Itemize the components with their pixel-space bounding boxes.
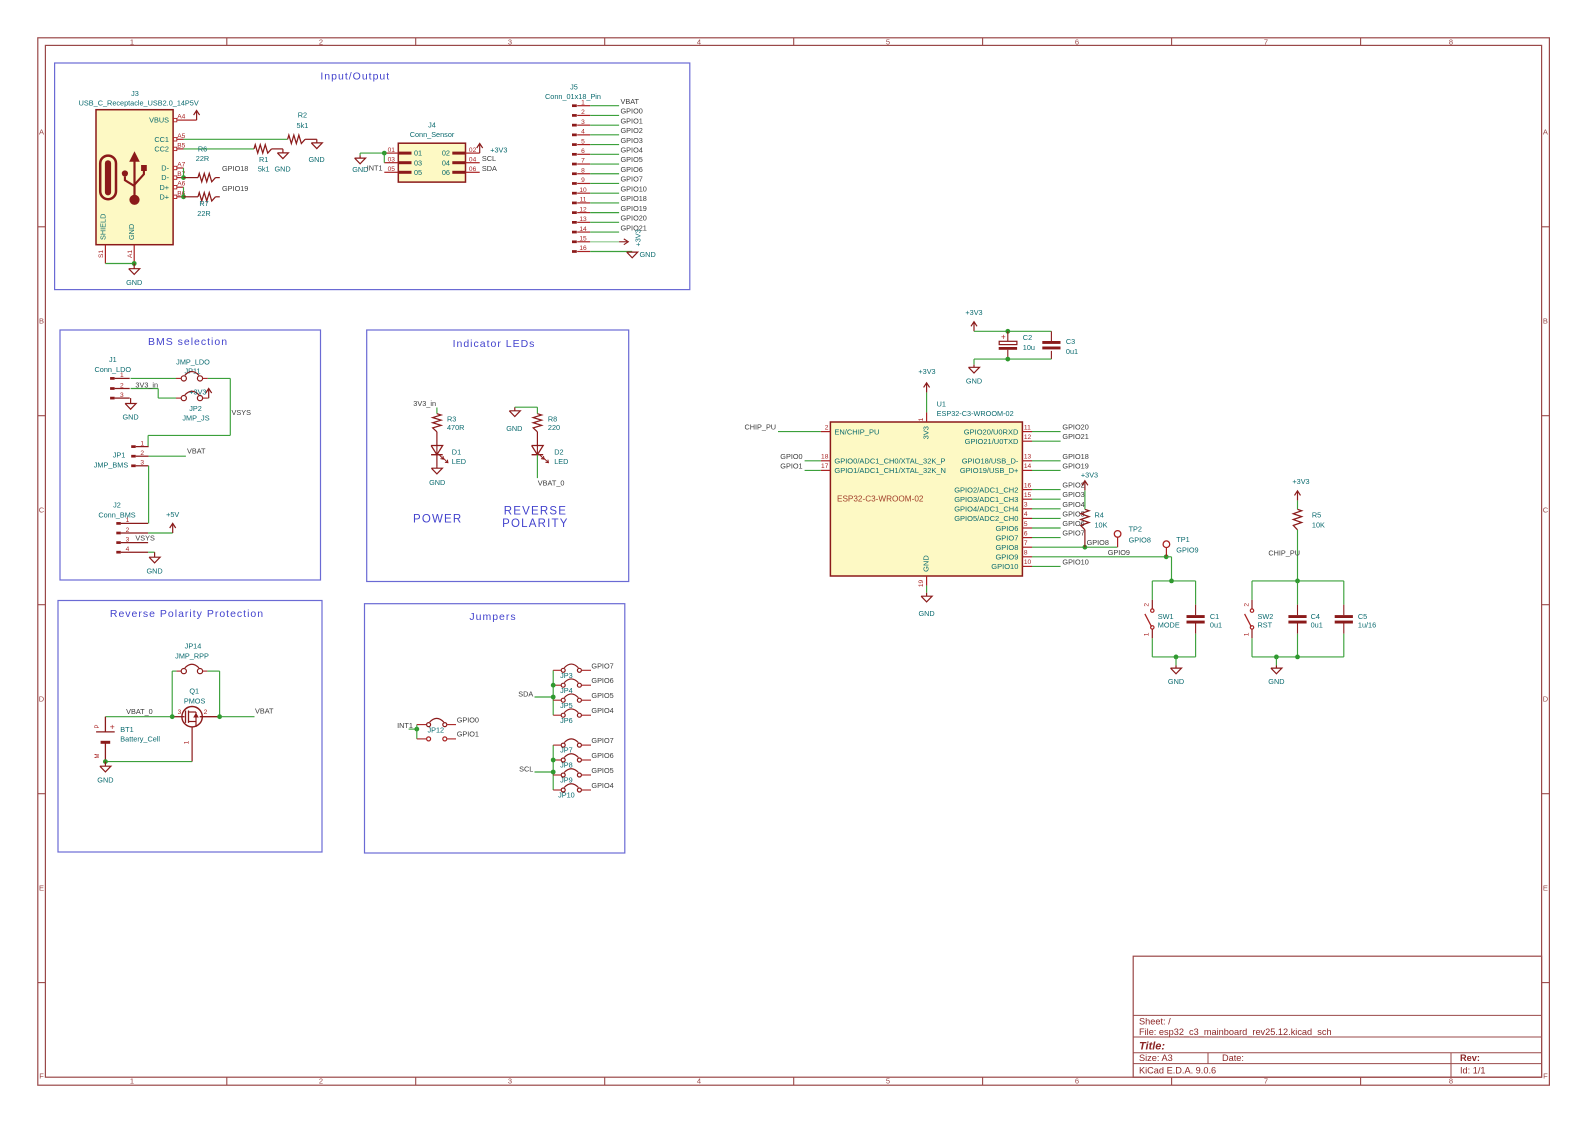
svg-text:2: 2 [825, 424, 829, 431]
svg-text:Id: 1/1: Id: 1/1 [1460, 1066, 1486, 1076]
svg-text:GND: GND [1168, 677, 1184, 686]
svg-text:3: 3 [508, 37, 512, 46]
svg-text:01: 01 [388, 147, 396, 154]
svg-text:GND: GND [122, 413, 138, 422]
svg-text:+3V3: +3V3 [965, 308, 982, 317]
svg-text:GPIO4: GPIO4 [591, 781, 613, 790]
svg-text:GPIO2: GPIO2 [621, 126, 643, 135]
svg-text:10: 10 [1024, 559, 1032, 566]
svg-text:R5: R5 [1312, 511, 1321, 520]
svg-text:E: E [1543, 884, 1548, 893]
svg-text:02: 02 [469, 147, 477, 154]
svg-text:GPIO1: GPIO1 [780, 461, 802, 470]
svg-text:5k1: 5k1 [297, 121, 309, 130]
svg-text:CHIP_PU: CHIP_PU [1268, 548, 1300, 557]
svg-text:JP14: JP14 [185, 642, 202, 651]
svg-text:Rev:: Rev: [1460, 1053, 1480, 1063]
svg-text:F: F [1543, 1072, 1548, 1081]
svg-text:GPIO5/ADC2_CH0: GPIO5/ADC2_CH0 [954, 514, 1018, 523]
svg-text:ESP32-C3-WROOM-02: ESP32-C3-WROOM-02 [837, 494, 924, 503]
svg-text:A1: A1 [127, 250, 134, 258]
svg-text:2: 2 [319, 1077, 323, 1086]
svg-text:GND: GND [506, 424, 522, 433]
svg-text:B: B [39, 317, 44, 326]
svg-text:GPIO0: GPIO0 [457, 715, 479, 724]
svg-text:GPIO2/ADC1_CH2: GPIO2/ADC1_CH2 [954, 485, 1018, 494]
svg-text:LED: LED [554, 457, 568, 466]
svg-text:EN/CHIP_PU: EN/CHIP_PU [834, 427, 879, 436]
svg-text:CC1: CC1 [154, 135, 169, 144]
svg-text:470R: 470R [447, 423, 464, 432]
svg-text:Reverse Polarity Protection: Reverse Polarity Protection [110, 608, 264, 620]
svg-text:GPIO3/ADC1_CH3: GPIO3/ADC1_CH3 [954, 495, 1018, 504]
svg-text:Conn_01x18_Pin: Conn_01x18_Pin [545, 92, 601, 101]
svg-text:2: 2 [140, 450, 144, 457]
svg-text:2: 2 [204, 709, 208, 716]
svg-text:12: 12 [1024, 434, 1032, 441]
svg-text:4: 4 [581, 129, 585, 136]
svg-text:7: 7 [1264, 1077, 1268, 1086]
svg-text:PMOS: PMOS [184, 696, 206, 705]
svg-text:GND: GND [126, 278, 142, 287]
svg-text:VBAT_0: VBAT_0 [538, 478, 565, 487]
svg-text:CC2: CC2 [154, 145, 169, 154]
svg-text:GPIO10: GPIO10 [621, 184, 647, 193]
svg-text:C3: C3 [1066, 337, 1075, 346]
svg-text:BMS selection: BMS selection [148, 336, 228, 348]
svg-text:GND: GND [966, 376, 982, 385]
svg-text:0u1: 0u1 [1311, 620, 1323, 629]
svg-text:18: 18 [821, 454, 829, 461]
svg-text:+3V3: +3V3 [918, 367, 935, 376]
svg-text:5: 5 [1024, 521, 1028, 528]
svg-text:GPIO8: GPIO8 [1129, 535, 1151, 544]
svg-text:22R: 22R [196, 154, 209, 163]
svg-text:GND: GND [640, 250, 656, 259]
svg-text:GPIO7: GPIO7 [591, 661, 613, 670]
svg-text:M: M [95, 754, 101, 759]
svg-text:5: 5 [581, 138, 585, 145]
svg-text:GPIO8: GPIO8 [1087, 538, 1109, 547]
svg-text:D1: D1 [452, 447, 461, 456]
svg-text:+5V: +5V [166, 510, 179, 519]
svg-text:SCL: SCL [519, 765, 533, 774]
svg-text:13: 13 [579, 216, 587, 223]
svg-text:GPIO2: GPIO2 [1062, 481, 1084, 490]
svg-text:GPIO1: GPIO1 [457, 730, 479, 739]
svg-text:10K: 10K [1095, 520, 1108, 529]
svg-text:10u: 10u [1023, 343, 1035, 352]
svg-text:Date:: Date: [1222, 1053, 1244, 1063]
svg-text:06: 06 [442, 168, 450, 177]
svg-text:GPIO19: GPIO19 [621, 204, 647, 213]
svg-text:LED: LED [452, 457, 466, 466]
svg-text:GPIO20/U0RXD: GPIO20/U0RXD [964, 427, 1019, 436]
svg-text:GPIO7: GPIO7 [995, 533, 1018, 542]
svg-text:13: 13 [1024, 454, 1032, 461]
svg-text:D-: D- [161, 173, 169, 182]
svg-text:16: 16 [579, 245, 587, 252]
svg-text:GPIO21: GPIO21 [1062, 432, 1088, 441]
svg-text:A: A [39, 128, 44, 137]
svg-text:JMP_JS: JMP_JS [182, 413, 209, 422]
svg-text:GPIO4: GPIO4 [621, 146, 643, 155]
svg-text:11: 11 [580, 197, 587, 204]
svg-text:GPIO7: GPIO7 [621, 175, 643, 184]
svg-text:GPIO7: GPIO7 [591, 736, 613, 745]
svg-text:REVERSE: REVERSE [504, 506, 567, 518]
svg-text:4: 4 [1024, 511, 1028, 518]
svg-text:02: 02 [442, 149, 450, 158]
svg-text:VBAT_0: VBAT_0 [126, 707, 153, 716]
svg-text:GPIO5: GPIO5 [591, 691, 613, 700]
svg-text:J5: J5 [570, 83, 578, 92]
svg-text:Sheet: /: Sheet: / [1139, 1017, 1171, 1027]
svg-text:2: 2 [1144, 603, 1151, 607]
svg-text:Conn_LDO: Conn_LDO [95, 365, 132, 374]
svg-text:GPIO0: GPIO0 [621, 107, 643, 116]
svg-text:VBAT: VBAT [621, 97, 640, 106]
svg-text:GPIO10: GPIO10 [1062, 557, 1088, 566]
svg-text:GPIO6: GPIO6 [591, 751, 613, 760]
svg-text:GPIO7: GPIO7 [1062, 529, 1084, 538]
svg-text:4: 4 [126, 546, 130, 553]
svg-text:GPIO5: GPIO5 [621, 155, 643, 164]
svg-text:8: 8 [1449, 37, 1453, 46]
svg-text:GPIO18: GPIO18 [621, 194, 647, 203]
svg-text:0u1: 0u1 [1210, 620, 1222, 629]
svg-text:SDA: SDA [518, 690, 533, 699]
svg-text:2: 2 [319, 37, 323, 46]
svg-text:A7: A7 [177, 162, 185, 169]
svg-text:D: D [39, 695, 45, 704]
svg-text:S1: S1 [98, 250, 105, 258]
svg-text:14: 14 [1024, 463, 1032, 470]
svg-text:3V3_in: 3V3_in [135, 380, 158, 389]
svg-text:VSYS: VSYS [232, 408, 252, 417]
svg-text:16: 16 [1024, 482, 1032, 489]
svg-text:GND: GND [1268, 677, 1284, 686]
svg-text:+3V3: +3V3 [1292, 477, 1309, 486]
svg-text:3: 3 [581, 119, 585, 126]
svg-text:USB_C_Receptacle_USB2.0_14P5V: USB_C_Receptacle_USB2.0_14P5V [79, 99, 199, 108]
svg-text:D2: D2 [554, 447, 563, 456]
svg-text:3: 3 [178, 709, 182, 716]
svg-text:10: 10 [579, 187, 587, 194]
svg-text:8: 8 [581, 167, 585, 174]
svg-text:GND: GND [146, 566, 162, 575]
svg-text:GPIO20: GPIO20 [1062, 423, 1088, 432]
svg-text:05: 05 [414, 168, 422, 177]
svg-text:GPIO21/U0TXD: GPIO21/U0TXD [965, 437, 1019, 446]
svg-text:Conn_Sensor: Conn_Sensor [410, 130, 455, 139]
svg-text:P: P [95, 724, 101, 728]
svg-text:J4: J4 [428, 121, 436, 130]
svg-text:GPIO5: GPIO5 [591, 766, 613, 775]
svg-text:GPIO18/USB_D-: GPIO18/USB_D- [962, 457, 1019, 466]
svg-text:GND: GND [429, 478, 445, 487]
svg-text:6: 6 [1075, 37, 1079, 46]
svg-text:JMP_RPP: JMP_RPP [175, 651, 209, 660]
svg-text:11: 11 [1024, 424, 1031, 431]
svg-text:Size: A3: Size: A3 [1139, 1053, 1173, 1063]
svg-text:JP10: JP10 [558, 791, 575, 800]
svg-text:01: 01 [414, 149, 422, 158]
svg-text:2: 2 [126, 527, 130, 534]
svg-text:1: 1 [126, 517, 130, 524]
svg-text:J1: J1 [109, 355, 117, 364]
svg-text:+3V3: +3V3 [490, 145, 507, 154]
svg-text:12: 12 [579, 206, 587, 213]
svg-text:GPIO9: GPIO9 [1108, 548, 1130, 557]
svg-text:+3V3: +3V3 [1081, 470, 1098, 479]
svg-text:U1: U1 [937, 400, 946, 409]
svg-text:GPIO19: GPIO19 [1062, 461, 1088, 470]
svg-text:19: 19 [918, 580, 925, 588]
svg-text:KiCad E.D.A. 9.0.6: KiCad E.D.A. 9.0.6 [1139, 1066, 1216, 1076]
svg-text:1: 1 [120, 372, 124, 379]
svg-text:GND: GND [918, 609, 934, 618]
svg-text:14: 14 [579, 226, 587, 233]
svg-text:+3V3: +3V3 [189, 387, 206, 396]
svg-text:File: esp32_c3_mainboard_rev25: File: esp32_c3_mainboard_rev25.12.kicad_… [1139, 1027, 1332, 1037]
svg-text:4: 4 [697, 37, 701, 46]
svg-text:POWER: POWER [413, 513, 462, 525]
svg-text:1: 1 [130, 1077, 134, 1086]
svg-text:9: 9 [581, 177, 585, 184]
svg-text:SCL: SCL [482, 154, 496, 163]
svg-text:3: 3 [140, 460, 144, 467]
svg-text:GPIO1/ADC1_CH1/XTAL_32K_N: GPIO1/ADC1_CH1/XTAL_32K_N [834, 466, 946, 475]
svg-text:3: 3 [126, 536, 130, 543]
svg-text:6: 6 [1075, 1077, 1079, 1086]
svg-text:A6: A6 [177, 181, 185, 188]
svg-text:C: C [1543, 506, 1549, 515]
svg-text:TP2: TP2 [1129, 525, 1142, 534]
svg-text:VBAT: VBAT [187, 446, 206, 455]
svg-text:3V3_in: 3V3_in [413, 399, 436, 408]
svg-text:E: E [39, 884, 44, 893]
svg-text:CHIP_PU: CHIP_PU [744, 423, 776, 432]
svg-text:3: 3 [120, 392, 124, 399]
svg-text:JP6: JP6 [560, 716, 573, 725]
svg-text:GPIO8: GPIO8 [995, 543, 1018, 552]
svg-text:1u/16: 1u/16 [1358, 620, 1376, 629]
svg-text:C2: C2 [1023, 333, 1032, 342]
svg-text:POLARITY: POLARITY [502, 518, 568, 530]
svg-text:+3V3: +3V3 [634, 229, 643, 246]
svg-text:GND: GND [308, 155, 324, 164]
svg-text:17: 17 [821, 463, 829, 470]
svg-text:D: D [1543, 695, 1549, 704]
svg-text:J3: J3 [131, 89, 139, 98]
svg-text:GPIO6: GPIO6 [995, 524, 1018, 533]
svg-text:VBAT: VBAT [255, 707, 274, 716]
svg-text:C: C [39, 506, 45, 515]
svg-text:03: 03 [414, 158, 422, 167]
svg-text:Battery_Cell: Battery_Cell [120, 735, 160, 744]
svg-text:R1: R1 [259, 155, 268, 164]
svg-text:GPIO4: GPIO4 [591, 706, 613, 715]
svg-text:1: 1 [918, 417, 925, 421]
svg-text:8: 8 [1449, 1077, 1453, 1086]
svg-text:1: 1 [184, 740, 191, 744]
svg-text:4: 4 [697, 1077, 701, 1086]
svg-text:GPIO18: GPIO18 [1062, 452, 1088, 461]
svg-text:3: 3 [1024, 502, 1028, 509]
svg-text:GPIO9: GPIO9 [1176, 546, 1198, 555]
svg-text:GND: GND [97, 775, 113, 784]
svg-text:VBUS: VBUS [149, 116, 169, 125]
svg-text:22R: 22R [197, 209, 210, 218]
svg-text:15: 15 [579, 235, 587, 242]
svg-text:D+: D+ [159, 192, 169, 201]
svg-text:1: 1 [130, 37, 134, 46]
svg-text:RST: RST [1258, 620, 1273, 629]
svg-text:GPIO1: GPIO1 [621, 116, 643, 125]
svg-text:Input/Output: Input/Output [320, 71, 390, 83]
svg-text:1: 1 [581, 99, 585, 106]
svg-text:TP1: TP1 [1176, 535, 1189, 544]
svg-text:Title:: Title: [1139, 1041, 1165, 1053]
svg-text:R2: R2 [298, 111, 307, 120]
svg-text:6: 6 [581, 148, 585, 155]
svg-text:GPIO3: GPIO3 [621, 136, 643, 145]
svg-text:5k1: 5k1 [258, 164, 270, 173]
svg-text:GPIO19: GPIO19 [222, 184, 248, 193]
svg-text:R7: R7 [199, 199, 208, 208]
svg-text:BT1: BT1 [120, 725, 133, 734]
svg-text:JP2: JP2 [189, 404, 202, 413]
svg-text:GPIO4: GPIO4 [1062, 500, 1084, 509]
svg-text:2: 2 [1243, 603, 1250, 607]
svg-text:GPIO19/USB_D+: GPIO19/USB_D+ [960, 466, 1019, 475]
svg-text:GPIO18: GPIO18 [222, 164, 248, 173]
svg-text:INT1: INT1 [367, 163, 383, 172]
svg-text:GND: GND [127, 224, 136, 240]
svg-text:3V3: 3V3 [921, 426, 930, 439]
svg-text:1: 1 [140, 440, 144, 447]
svg-text:GPIO10: GPIO10 [991, 562, 1018, 571]
svg-text:Indicator LEDs: Indicator LEDs [453, 338, 536, 350]
svg-text:GPIO0: GPIO0 [780, 452, 802, 461]
svg-text:GPIO20: GPIO20 [621, 214, 647, 223]
svg-text:0u1: 0u1 [1066, 347, 1078, 356]
svg-text:3: 3 [508, 1077, 512, 1086]
svg-text:R6: R6 [198, 144, 207, 153]
svg-text:7: 7 [581, 158, 585, 165]
svg-text:B: B [1543, 317, 1548, 326]
svg-text:SHIELD: SHIELD [98, 214, 107, 240]
svg-text:MODE: MODE [1158, 620, 1180, 629]
svg-text:R4: R4 [1095, 511, 1104, 520]
svg-text:+: + [1001, 333, 1006, 342]
svg-text:8: 8 [1024, 550, 1028, 557]
svg-text:5: 5 [886, 1077, 890, 1086]
svg-text:03: 03 [388, 156, 396, 163]
svg-text:06: 06 [469, 166, 477, 173]
svg-text:15: 15 [1024, 492, 1032, 499]
svg-text:JP12: JP12 [427, 726, 444, 735]
svg-text:JP1: JP1 [113, 451, 126, 460]
svg-text:6: 6 [1024, 530, 1028, 537]
svg-text:GPIO3: GPIO3 [1062, 490, 1084, 499]
svg-text:GPIO6: GPIO6 [591, 676, 613, 685]
svg-text:05: 05 [388, 166, 396, 173]
svg-text:220: 220 [548, 423, 560, 432]
svg-text:5: 5 [886, 37, 890, 46]
svg-text:F: F [39, 1072, 44, 1081]
svg-text:JMP_BMS: JMP_BMS [94, 461, 129, 470]
svg-text:GND: GND [921, 555, 930, 572]
svg-text:D+: D+ [159, 183, 169, 192]
svg-text:Jumpers: Jumpers [469, 611, 516, 623]
svg-text:7: 7 [1024, 540, 1028, 547]
svg-text:1: 1 [1144, 632, 1151, 636]
svg-text:GPIO9: GPIO9 [995, 553, 1018, 562]
svg-text:GPIO4/ADC1_CH4: GPIO4/ADC1_CH4 [954, 505, 1018, 514]
svg-text:10K: 10K [1312, 520, 1325, 529]
svg-text:GPIO6: GPIO6 [621, 165, 643, 174]
svg-text:A: A [1543, 128, 1548, 137]
svg-text:+: + [110, 722, 115, 732]
svg-text:J2: J2 [113, 501, 121, 510]
svg-text:Q1: Q1 [189, 687, 199, 696]
svg-text:04: 04 [469, 156, 477, 163]
svg-text:JMP_LDO: JMP_LDO [176, 358, 210, 367]
svg-text:VSYS: VSYS [135, 533, 155, 542]
svg-text:Conn_BMS: Conn_BMS [98, 511, 135, 520]
svg-text:04: 04 [442, 158, 450, 167]
svg-text:GPIO0/ADC1_CH0/XTAL_32K_P: GPIO0/ADC1_CH0/XTAL_32K_P [834, 457, 945, 466]
svg-text:2: 2 [581, 109, 585, 116]
svg-text:SDA: SDA [482, 164, 497, 173]
svg-text:GND: GND [274, 164, 290, 173]
svg-text:ESP32-C3-WROOM-02: ESP32-C3-WROOM-02 [937, 409, 1014, 418]
svg-text:D-: D- [161, 164, 169, 173]
svg-text:7: 7 [1264, 37, 1268, 46]
svg-text:1: 1 [1243, 632, 1250, 636]
svg-text:2: 2 [120, 382, 124, 389]
